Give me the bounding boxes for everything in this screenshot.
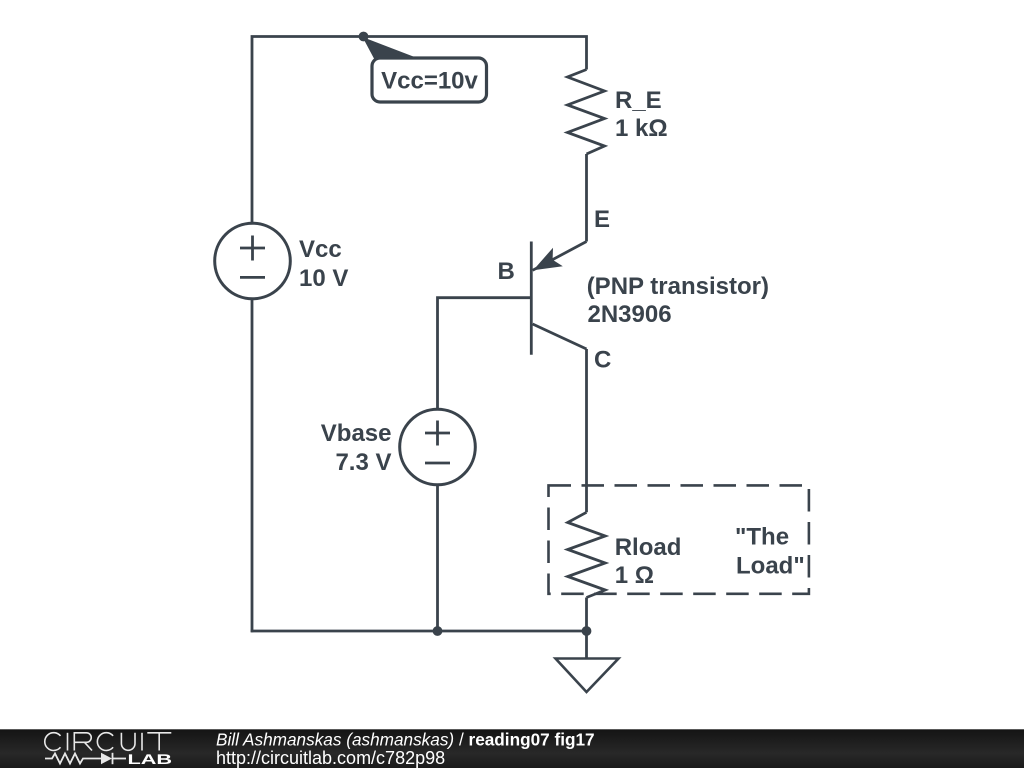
transistor collector diagonal — [533, 324, 587, 349]
svg-text:Vbase: Vbase — [321, 420, 392, 447]
svg-text:7.3 V: 7.3 V — [335, 449, 391, 476]
svg-text:Vcc: Vcc — [299, 236, 342, 263]
junction dot Vbase at bottom rail — [433, 626, 443, 636]
svg-text:Vcc=10v: Vcc=10v — [381, 68, 478, 95]
transistor emitter diagonal — [533, 242, 587, 271]
svg-text:1 kΩ: 1 kΩ — [615, 115, 668, 142]
svg-text:R_E: R_E — [615, 87, 662, 114]
svg-text:B: B — [498, 258, 515, 285]
svg-text:Load": Load" — [736, 553, 805, 580]
svg-text:(PNP transistor): (PNP transistor) — [587, 273, 769, 300]
logo resistor-diode glyph — [45, 753, 126, 764]
transistor emitter arrow — [533, 248, 563, 271]
dashed box The Load — [549, 485, 809, 593]
wire: Rload bottom to ground node — [585, 598, 588, 632]
wire: base wire from Vbase to transistor — [438, 298, 531, 410]
svg-text:1 Ω: 1 Ω — [615, 562, 654, 589]
ground symbol — [556, 631, 619, 692]
svg-text:http://circuitlab.com/c782p98: http://circuitlab.com/c782p98 — [216, 748, 445, 768]
svg-text:2N3906: 2N3906 — [588, 301, 672, 328]
wire: bottom ground rail — [251, 630, 587, 633]
wire: Vcc bottom to ground rail — [251, 299, 254, 633]
transistor base bar — [530, 242, 533, 355]
logo CIRCUIT — [45, 733, 172, 751]
transistor Q1 2N3906 — [531, 242, 586, 355]
wire: top rail from Vcc source up, across, down to R_E — [252, 37, 587, 224]
svg-text:"The: "The — [735, 524, 789, 551]
annotation callout pointer wedge — [363, 37, 419, 60]
svg-text:Rload: Rload — [615, 534, 682, 561]
voltage source V2 Vbase — [400, 409, 476, 485]
wire: Vbase bottom to ground rail — [436, 485, 439, 631]
annotation callout box — [372, 58, 487, 102]
wire: R_E bottom to transistor emitter — [585, 154, 588, 242]
resistor R_E — [568, 70, 605, 155]
svg-text:LAB: LAB — [128, 751, 173, 767]
wire: collector down to Rload — [585, 349, 588, 512]
svg-text:Bill Ashmanskas (ashmanskas) /: Bill Ashmanskas (ashmanskas) / reading07… — [216, 730, 595, 750]
resistor Rload — [568, 512, 606, 597]
junction dot at Vcc=10v node — [359, 32, 369, 42]
svg-text:C: C — [594, 347, 611, 374]
voltage source V1 Vcc — [215, 223, 291, 299]
footer bar — [0, 729, 1024, 768]
svg-text:E: E — [594, 206, 610, 233]
svg-text:10 V: 10 V — [299, 265, 348, 292]
junction dot ground node — [582, 626, 592, 636]
